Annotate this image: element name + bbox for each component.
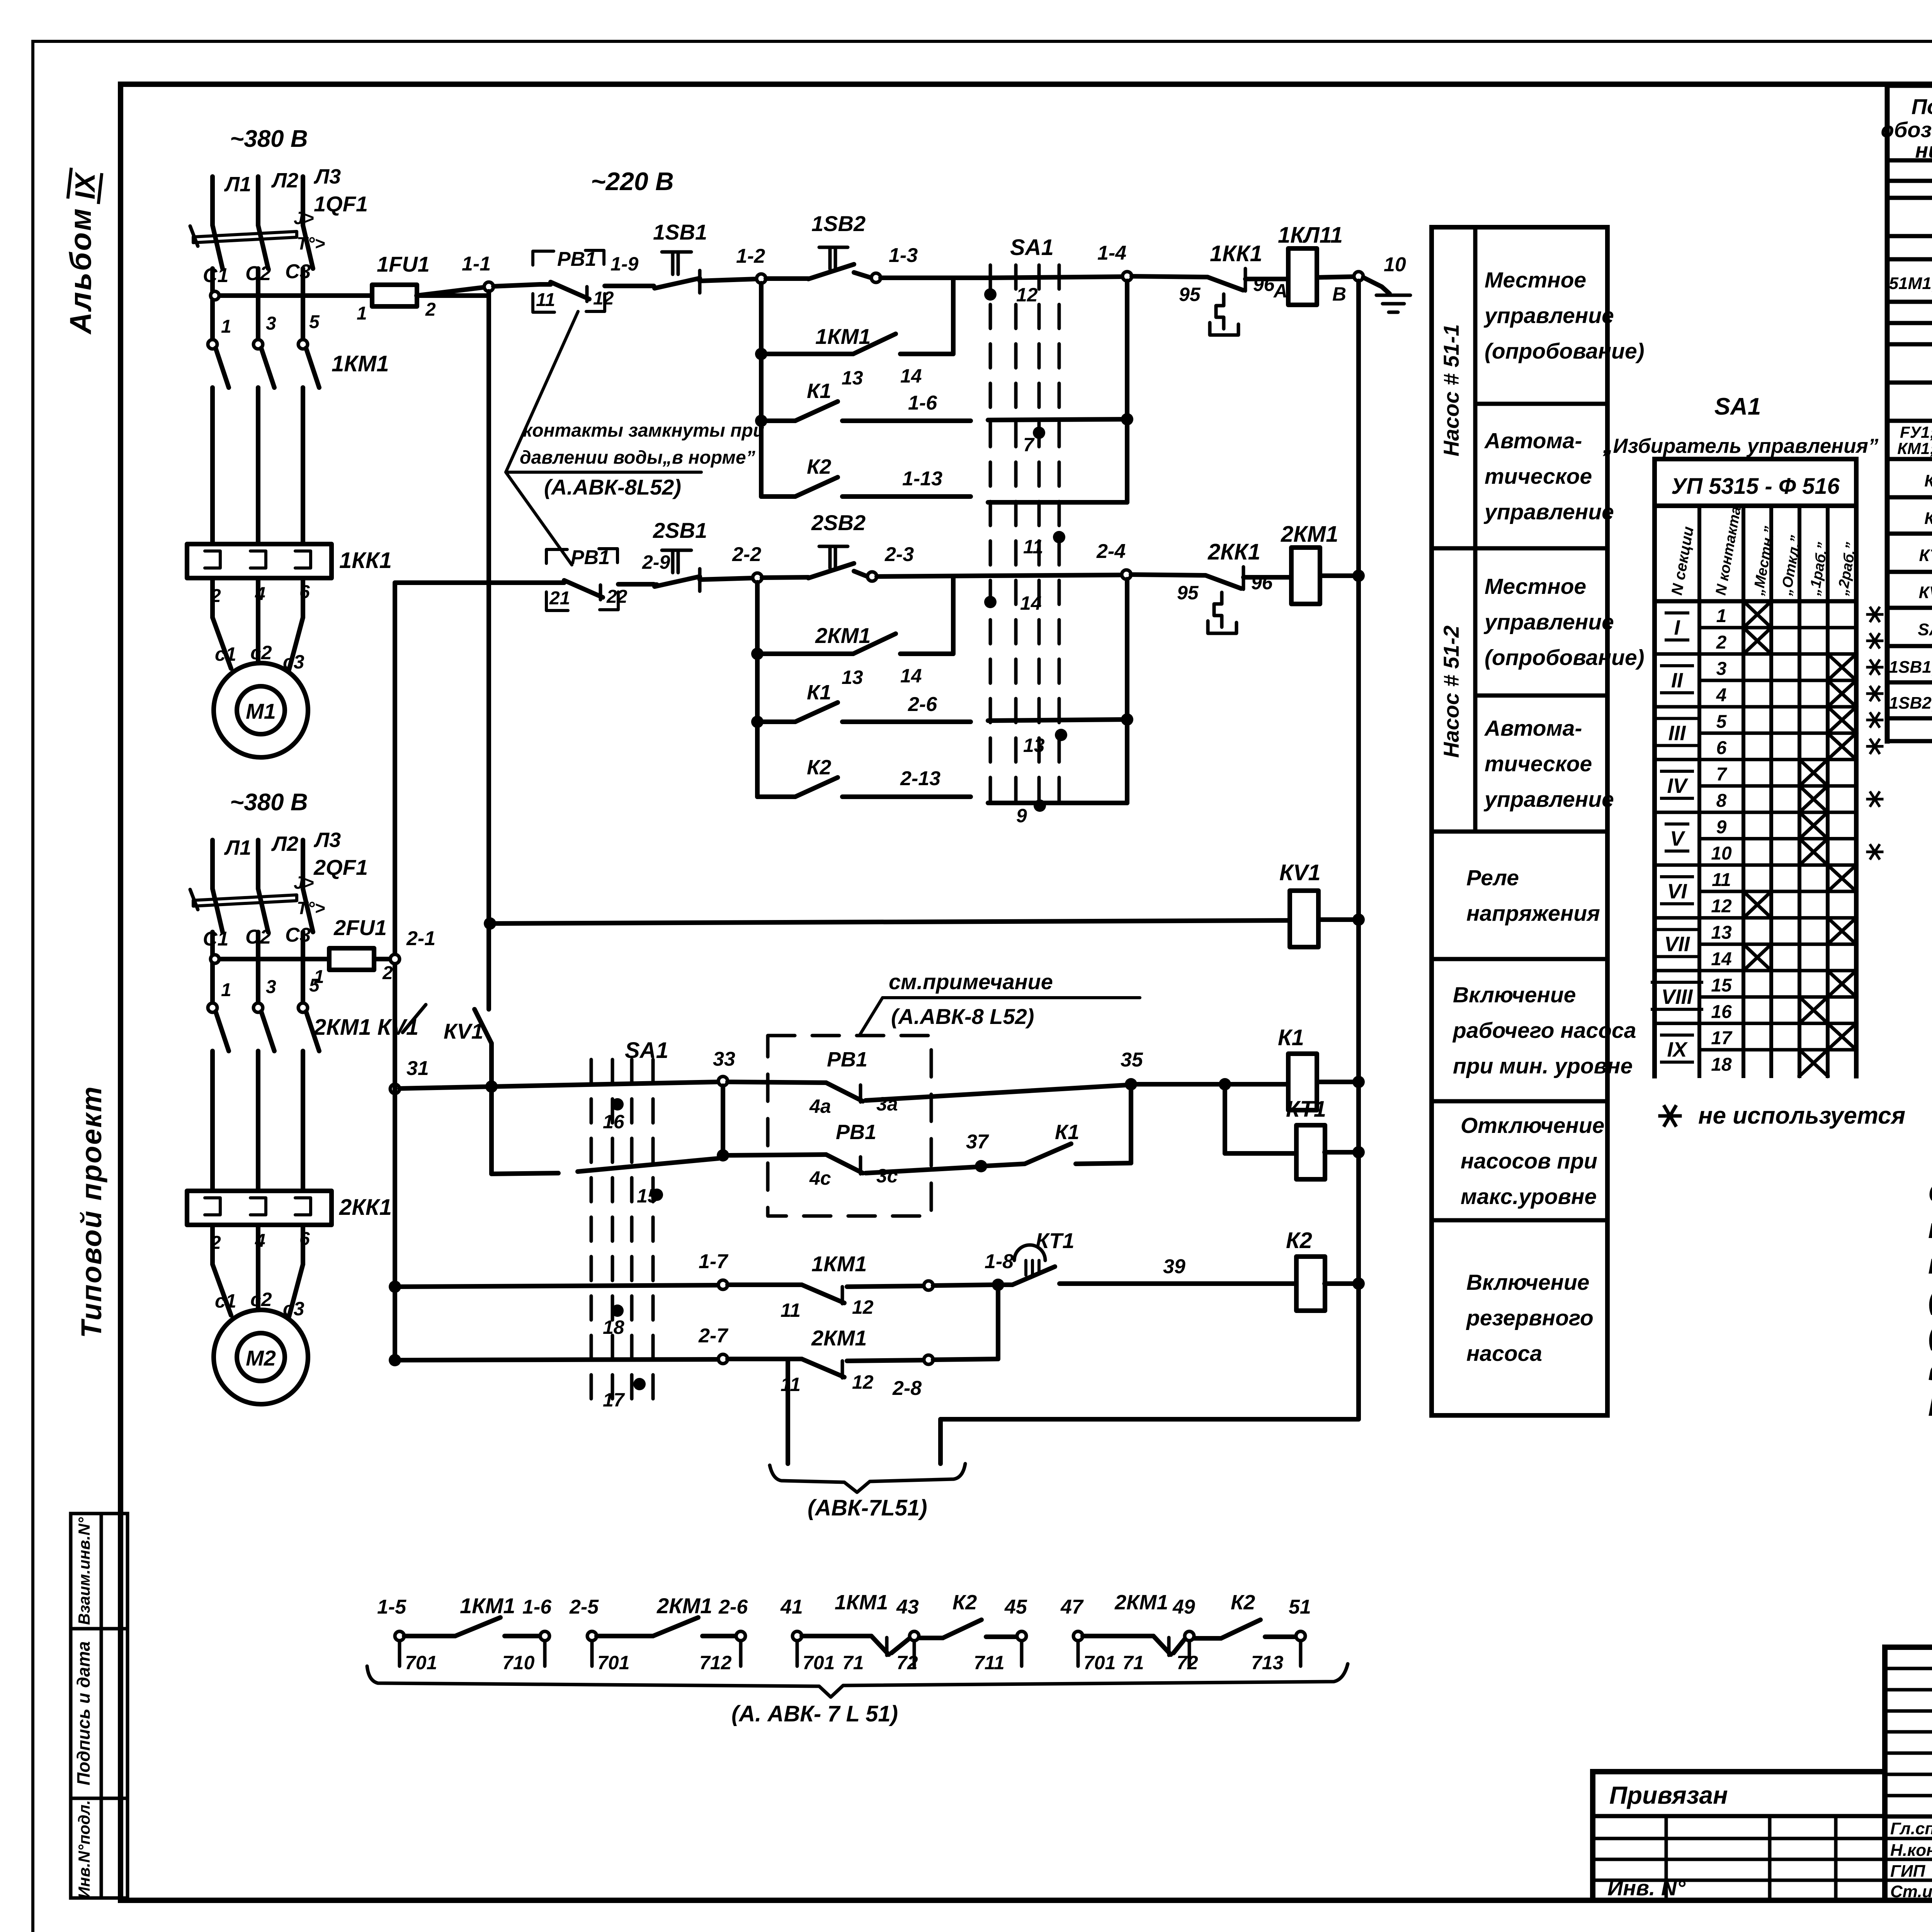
svg-text:М1: М1 (246, 699, 276, 723)
svg-text:7: 7 (1716, 764, 1728, 785)
svg-text:управление: управление (1483, 500, 1614, 524)
svg-text:(А.АВК-8 L52): (А.АВК-8 L52) (891, 1004, 1034, 1029)
svg-text:35: 35 (1121, 1049, 1143, 1071)
svg-text:10: 10 (1711, 844, 1732, 864)
svg-text:Инв.N°подл.: Инв.N°подл. (75, 1800, 93, 1899)
svg-text:насоса: насоса (1466, 1341, 1542, 1366)
svg-text:К2: К2 (1231, 1591, 1255, 1614)
svg-text:2-1: 2-1 (406, 927, 435, 950)
svg-text:~220 В: ~220 В (591, 167, 674, 196)
svg-text:2SB2: 2SB2 (811, 510, 866, 535)
svg-text:контакты замкнуты при: контакты замкнуты при (523, 420, 764, 441)
svg-text:13: 13 (842, 667, 863, 688)
svg-text:VIII: VIII (1661, 985, 1693, 1009)
svg-text:Взаим.инв.N°: Взаим.инв.N° (75, 1517, 93, 1625)
svg-text:14: 14 (900, 365, 922, 387)
svg-text:УП 5315 - Ф 516: УП 5315 - Ф 516 (1671, 474, 1840, 499)
svg-text:К1: К1 (1278, 1025, 1304, 1050)
svg-text:Автома-: Автома- (1484, 429, 1582, 453)
svg-text:31: 31 (406, 1057, 429, 1080)
svg-text:95: 95 (1179, 284, 1201, 305)
svg-text:3: 3 (266, 313, 276, 334)
svg-text:5: 5 (309, 975, 320, 996)
svg-text:1-8: 1-8 (985, 1250, 1014, 1273)
svg-text:51М1;51М2: 51М1;51М2 (1889, 274, 1932, 293)
svg-text:IX: IX (70, 172, 101, 199)
svg-text:1: 1 (1716, 606, 1727, 626)
svg-text:701: 701 (597, 1652, 629, 1673)
svg-text:при отсутствии воды в баке: при отсутствии воды в баке. При заполнен… (1928, 1213, 1932, 1244)
svg-text:701: 701 (405, 1652, 437, 1673)
svg-text:VII: VII (1664, 933, 1690, 956)
svg-text:при мин. уровне: при мин. уровне (1453, 1054, 1633, 1078)
svg-text:VI: VI (1667, 880, 1687, 903)
svg-text:1-7: 1-7 (699, 1250, 728, 1273)
svg-text:37: 37 (966, 1131, 989, 1153)
svg-text:V: V (1670, 827, 1685, 850)
svg-text:701: 701 (1083, 1652, 1116, 1673)
svg-text:47: 47 (1060, 1596, 1084, 1618)
svg-text:51: 51 (1289, 1596, 1311, 1618)
svg-text:1КЛ11: 1КЛ11 (1278, 223, 1343, 248)
svg-text:1-5: 1-5 (377, 1596, 406, 1618)
svg-text:12: 12 (1016, 284, 1038, 306)
svg-text:К2: К2 (807, 756, 831, 779)
svg-text:11: 11 (781, 1374, 801, 1395)
svg-text:T°>: T°> (297, 233, 325, 253)
svg-text:2FU1: 2FU1 (333, 915, 387, 940)
svg-text:К1: К1 (1055, 1121, 1079, 1144)
svg-text:М2: М2 (246, 1346, 276, 1370)
svg-text:4а: 4а (809, 1095, 831, 1117)
svg-text:7: 7 (1023, 434, 1035, 456)
svg-text:РВ1: РВ1 (571, 546, 610, 569)
svg-text:2-3: 2-3 (884, 543, 914, 566)
svg-text:не используется: не используется (1698, 1102, 1905, 1129)
svg-text:ние: ние (1915, 138, 1932, 162)
svg-text:1QF1: 1QF1 (314, 192, 368, 216)
svg-text:Альбом: Альбом (63, 207, 97, 335)
svg-text:18: 18 (603, 1316, 624, 1338)
svg-text:1КМ1: 1КМ1 (811, 1252, 867, 1276)
svg-text:КТ1: КТ1 (1286, 1097, 1326, 1122)
svg-text:713: 713 (1251, 1652, 1284, 1673)
svg-text:~380 В: ~380 В (230, 789, 308, 816)
svg-text:„Избиратель управления”: „Избиратель управления” (1602, 435, 1879, 457)
svg-text:КТ1: КТ1 (1036, 1228, 1074, 1253)
svg-text:712: 712 (699, 1652, 732, 1673)
svg-text:С1: С1 (203, 928, 228, 950)
svg-text:1-4: 1-4 (1097, 242, 1126, 264)
svg-text:2-8: 2-8 (892, 1377, 922, 1400)
svg-text:2: 2 (382, 963, 393, 983)
svg-text:(минимальный уровень) и затем: (минимальный уровень) и затем контакт 4с… (1928, 1284, 1932, 1315)
svg-text:РВ-1 обратная.: РВ-1 обратная. (1928, 1391, 1932, 1422)
svg-text:К1: К1 (1924, 471, 1932, 490)
svg-text:Местное: Местное (1485, 268, 1586, 293)
svg-text:1-13: 1-13 (902, 468, 942, 490)
svg-text:4: 4 (1716, 685, 1727, 706)
svg-text:Л2: Л2 (271, 832, 298, 855)
svg-text:Реле: Реле (1466, 866, 1519, 890)
svg-text:SA1: SA1 (625, 1038, 668, 1063)
svg-text:(А. АВК- 7 L 51): (А. АВК- 7 L 51) (731, 1701, 898, 1726)
svg-text:5: 5 (1716, 711, 1727, 732)
svg-text:(АВК-7L51): (АВК-7L51) (808, 1495, 927, 1520)
svg-text:(опробование): (опробование) (1485, 339, 1645, 364)
svg-text:2КК1: 2КК1 (339, 1195, 392, 1220)
svg-text:(максимальный уровень). При: (максимальный уровень). При опускании ур… (1928, 1320, 1932, 1351)
svg-text:72: 72 (1177, 1652, 1198, 1673)
svg-text:2SB1: 2SB1 (653, 518, 707, 543)
svg-text:11: 11 (781, 1299, 801, 1321)
svg-text:управление: управление (1483, 610, 1614, 634)
svg-text:45: 45 (1004, 1596, 1027, 1618)
svg-text:1: 1 (221, 316, 231, 337)
svg-text:IX: IX (1667, 1038, 1688, 1061)
svg-text:2-2: 2-2 (732, 543, 761, 566)
svg-text:Включение: Включение (1453, 983, 1576, 1007)
svg-text:давлении воды„в норме”: давлении воды„в норме” (520, 447, 755, 468)
svg-text:1-9: 1-9 (611, 253, 638, 275)
svg-text:Ст.инж.: Ст.инж. (1890, 1882, 1932, 1901)
svg-text:2КМ1 КV1: 2КМ1 КV1 (313, 1015, 418, 1040)
svg-text:3с: 3с (876, 1165, 898, 1187)
svg-text:2-5: 2-5 (569, 1596, 599, 1618)
svg-text:В: В (1332, 283, 1346, 305)
svg-text:Включение: Включение (1466, 1270, 1590, 1295)
svg-text:1-6: 1-6 (522, 1596, 552, 1618)
svg-text:насосов при: насосов при (1461, 1149, 1597, 1173)
svg-text:2: 2 (425, 299, 436, 320)
svg-text:2-13: 2-13 (900, 767, 940, 790)
svg-text:2КМ1: 2КМ1 (1281, 522, 1338, 547)
svg-text:см.примечание: см.примечание (889, 969, 1053, 994)
svg-text:~380 В: ~380 В (230, 126, 308, 152)
svg-text:1SB2;2SB2: 1SB2;2SB2 (1889, 694, 1932, 713)
svg-text:Насос # 51-2: Насос # 51-2 (1439, 626, 1463, 758)
svg-text:Л1: Л1 (224, 173, 251, 196)
svg-text:С1: С1 (203, 264, 228, 287)
svg-text:701: 701 (803, 1652, 835, 1673)
svg-text:2-9: 2-9 (642, 551, 670, 573)
svg-text:J>: J> (294, 208, 314, 228)
svg-text:управление: управление (1483, 787, 1614, 812)
svg-text:РВ1: РВ1 (557, 248, 596, 270)
svg-text:КV1: КV1 (1919, 583, 1932, 602)
svg-text:(А.АВК-8L52): (А.АВК-8L52) (544, 475, 681, 499)
svg-text:1: 1 (357, 303, 367, 324)
svg-text:рабочего насоса: рабочего насоса (1452, 1018, 1636, 1043)
svg-text:1-1: 1-1 (462, 253, 491, 275)
svg-text:J>: J> (294, 872, 314, 893)
svg-text:К2: К2 (1286, 1228, 1312, 1253)
svg-text:1SB1: 1SB1 (653, 220, 707, 244)
svg-text:Типовой проект: Типовой проект (75, 1085, 107, 1338)
svg-text:43: 43 (896, 1596, 919, 1618)
svg-text:15: 15 (1711, 975, 1732, 996)
svg-text:2-6: 2-6 (908, 693, 937, 716)
svg-text:К2: К2 (1924, 509, 1932, 528)
svg-text:Инв. N°: Инв. N° (1607, 1876, 1685, 1900)
svg-text:2-4: 2-4 (1096, 540, 1126, 563)
svg-text:6: 6 (1716, 738, 1727, 759)
svg-text:17: 17 (1711, 1028, 1733, 1049)
svg-text:2-7: 2-7 (698, 1325, 728, 1347)
svg-text:К1: К1 (807, 681, 831, 704)
svg-text:13: 13 (1711, 922, 1732, 943)
svg-text:1КМ1: 1КМ1 (332, 351, 389, 376)
svg-text:71: 71 (1122, 1652, 1144, 1673)
svg-text:А: А (1273, 280, 1287, 302)
svg-text:16: 16 (1711, 1002, 1732, 1022)
svg-text:Л2: Л2 (271, 169, 298, 192)
svg-text:с1: с1 (215, 643, 236, 665)
svg-text:11: 11 (536, 290, 555, 310)
svg-text:с2: с2 (250, 1289, 272, 1310)
svg-text:49: 49 (1172, 1596, 1195, 1618)
svg-text:2КМ1: 2КМ1 (815, 623, 871, 648)
svg-text:14: 14 (1711, 949, 1731, 969)
svg-text:2КК1: 2КК1 (1207, 539, 1260, 565)
svg-text:2КМ1: 2КМ1 (811, 1326, 867, 1350)
svg-text:К2: К2 (952, 1591, 977, 1614)
svg-text:13: 13 (1023, 735, 1045, 756)
svg-text:ГИП: ГИП (1890, 1862, 1926, 1881)
svg-text:71: 71 (842, 1652, 864, 1673)
svg-text:12: 12 (852, 1296, 874, 1318)
svg-text:последовательно размыкаются к: последовательно размыкаются контакт 4а -… (1928, 1249, 1932, 1280)
svg-text:РВ1: РВ1 (836, 1121, 876, 1144)
svg-text:напряжения: напряжения (1466, 901, 1600, 926)
svg-text:33: 33 (713, 1048, 735, 1070)
svg-text:Привязан: Привязан (1609, 1781, 1728, 1809)
svg-text:SA1: SA1 (1714, 393, 1761, 420)
svg-text:39: 39 (1163, 1255, 1185, 1278)
svg-text:SA1: SA1 (1010, 235, 1054, 260)
svg-text:21: 21 (549, 588, 570, 609)
svg-text:КV1: КV1 (1279, 860, 1321, 885)
svg-text:Отключение: Отключение (1461, 1113, 1604, 1138)
svg-text:Автома-: Автома- (1484, 716, 1582, 741)
svg-text:с1: с1 (215, 1290, 236, 1312)
svg-text:тическое: тическое (1485, 752, 1592, 776)
svg-text:14: 14 (900, 665, 922, 687)
svg-text:1: 1 (221, 980, 231, 1000)
svg-text:Гл.спец.: Гл.спец. (1890, 1819, 1932, 1838)
svg-text:1КМ1: 1КМ1 (835, 1591, 888, 1614)
svg-text:9: 9 (1716, 817, 1727, 837)
svg-text:4с: 4с (809, 1167, 831, 1189)
svg-text:III: III (1668, 721, 1686, 745)
svg-text:II: II (1671, 669, 1683, 692)
svg-text:Н.контр.: Н.контр. (1890, 1841, 1932, 1860)
svg-text:КV1: КV1 (444, 1019, 483, 1043)
svg-text:3: 3 (266, 977, 276, 997)
svg-text:1SB1;2SB1: 1SB1;2SB1 (1889, 658, 1932, 677)
svg-text:2QF1: 2QF1 (313, 855, 368, 879)
svg-text:SA1: SA1 (1918, 620, 1932, 639)
svg-text:Состояние контактов реле ур: Состояние контактов реле уровня РВ1 пока… (1928, 1178, 1932, 1209)
svg-text:5: 5 (309, 312, 320, 332)
svg-text:1-6: 1-6 (908, 392, 937, 414)
svg-text:12: 12 (1711, 896, 1732, 917)
svg-text:15: 15 (637, 1185, 659, 1207)
svg-text:1-3: 1-3 (889, 244, 918, 267)
svg-text:РВ1: РВ1 (827, 1048, 867, 1071)
svg-text:1SB2: 1SB2 (811, 211, 866, 236)
svg-text:11: 11 (1712, 870, 1731, 890)
svg-text:1КМ1: 1КМ1 (460, 1594, 515, 1618)
svg-text:3а: 3а (876, 1093, 898, 1115)
svg-text:воды последовательность замы: воды последовательность замыкания контак… (1928, 1355, 1932, 1386)
svg-text:14: 14 (1020, 592, 1042, 614)
svg-text:41: 41 (780, 1596, 803, 1618)
svg-text:1КК1: 1КК1 (1210, 241, 1262, 266)
svg-text:К1: К1 (807, 379, 831, 403)
svg-text:макс.уровне: макс.уровне (1461, 1184, 1597, 1209)
svg-text:С3: С3 (285, 924, 311, 946)
svg-text:С3: С3 (285, 260, 311, 283)
svg-text:КМ1; QF1: КМ1; QF1 (1897, 439, 1932, 458)
svg-text:710: 710 (502, 1652, 535, 1673)
svg-text:2КМ1: 2КМ1 (656, 1594, 712, 1618)
svg-text:12: 12 (593, 288, 614, 309)
svg-text:16: 16 (603, 1111, 625, 1133)
svg-text:1FU1: 1FU1 (377, 252, 430, 276)
svg-text:Поз.: Поз. (1912, 94, 1932, 119)
svg-text:Л3: Л3 (313, 828, 341, 852)
svg-text:11: 11 (1023, 536, 1043, 558)
svg-text:управление: управление (1483, 303, 1614, 328)
svg-text:2: 2 (1716, 632, 1727, 653)
svg-text:1КМ1: 1КМ1 (815, 324, 871, 349)
svg-text:711: 711 (974, 1652, 1005, 1673)
svg-text:К2: К2 (807, 455, 831, 478)
svg-text:I: I (1674, 616, 1680, 639)
svg-text:Л3: Л3 (313, 165, 341, 188)
svg-text:12: 12 (852, 1371, 874, 1393)
svg-text:3: 3 (1716, 659, 1727, 679)
svg-text:IV: IV (1667, 774, 1688, 798)
svg-text:9: 9 (1016, 805, 1027, 827)
svg-text:резервного: резервного (1466, 1306, 1594, 1330)
svg-text:22: 22 (606, 587, 628, 607)
svg-text:(опробование): (опробование) (1485, 645, 1645, 670)
svg-text:Подпись и дата: Подпись и дата (73, 1641, 94, 1786)
svg-text:1КК1: 1КК1 (339, 548, 392, 573)
svg-text:8: 8 (1716, 791, 1727, 811)
svg-text:13: 13 (842, 367, 863, 389)
svg-text:2КМ1: 2КМ1 (1114, 1591, 1168, 1614)
svg-text:КТ1: КТ1 (1919, 546, 1932, 565)
svg-text:T°>: T°> (297, 898, 325, 918)
svg-text:с2: с2 (250, 642, 272, 663)
svg-text:1-2: 1-2 (736, 245, 765, 267)
svg-text:2-6: 2-6 (718, 1596, 748, 1618)
svg-text:Местное: Местное (1485, 574, 1586, 599)
svg-text:10: 10 (1384, 253, 1406, 276)
svg-text:18: 18 (1711, 1054, 1732, 1075)
svg-text:тическое: тическое (1485, 464, 1592, 489)
svg-text:95: 95 (1177, 582, 1199, 604)
svg-text:Насос # 51-1: Насос # 51-1 (1439, 324, 1463, 456)
svg-text:FУ1; КК1: FУ1; КК1 (1900, 423, 1932, 441)
svg-text:17: 17 (603, 1389, 625, 1411)
svg-text:Л1: Л1 (224, 836, 251, 859)
